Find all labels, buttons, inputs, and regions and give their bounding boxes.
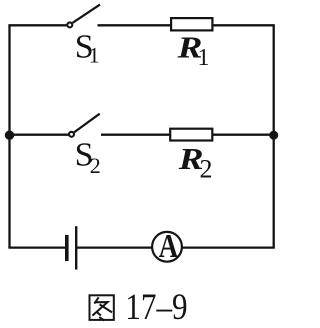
switch S2 pivot circle	[69, 132, 74, 137]
wire: bottom branch middle segment	[76, 246, 152, 248]
svg-text:17–9: 17–9	[125, 286, 187, 327]
junction node right	[269, 131, 278, 140]
wire: right vertical	[273, 25, 275, 247]
wire: bottom branch right segment	[182, 246, 275, 248]
switch S1 pivot circle	[67, 22, 72, 27]
svg-text:1: 1	[198, 45, 210, 71]
wire: middle branch left segment	[8, 134, 68, 136]
ammeter A circle	[152, 232, 182, 262]
battery negative plate (short)	[65, 235, 69, 261]
switch S2 blade	[74, 114, 99, 133]
wire: middle branch right segment	[212, 134, 274, 136]
junction node left	[5, 131, 14, 140]
svg-text:2: 2	[90, 153, 101, 178]
switch S1 blade	[73, 5, 100, 23]
wire: top branch middle segment	[98, 24, 172, 26]
wire: left vertical	[8, 25, 10, 247]
wire: middle branch middle segment	[101, 134, 171, 136]
resistor R2 box	[170, 129, 212, 141]
svg-text:1: 1	[89, 43, 100, 68]
wire: bottom branch left segment	[8, 246, 66, 248]
resistor R1 box	[171, 18, 212, 30]
svg-text:2: 2	[200, 155, 213, 184]
caption character 图 (drawn strokes)	[90, 295, 114, 320]
svg-text:A: A	[159, 227, 179, 265]
wire: top branch right segment	[212, 24, 274, 26]
wire: top branch left segment	[8, 24, 67, 26]
battery positive plate (long)	[75, 226, 77, 269]
